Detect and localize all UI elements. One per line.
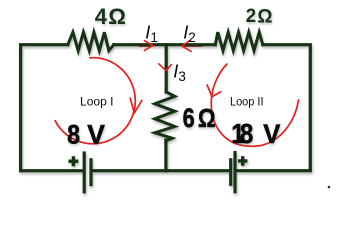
svg-text:4: 4 [95,4,108,29]
svg-text:2: 2 [246,6,257,27]
svg-text:Ω: Ω [257,6,272,27]
svg-text:Loop II: Loop II [230,97,264,109]
svg-text:6: 6 [183,104,195,134]
svg-text:V: V [87,119,105,149]
svg-text:8: 8 [240,120,253,150]
svg-text:V: V [263,119,281,150]
svg-text:8: 8 [67,120,80,150]
svg-text:Ω: Ω [198,104,216,133]
svg-text:Loop I: Loop I [80,97,114,109]
svg-text:Ω: Ω [108,4,126,29]
